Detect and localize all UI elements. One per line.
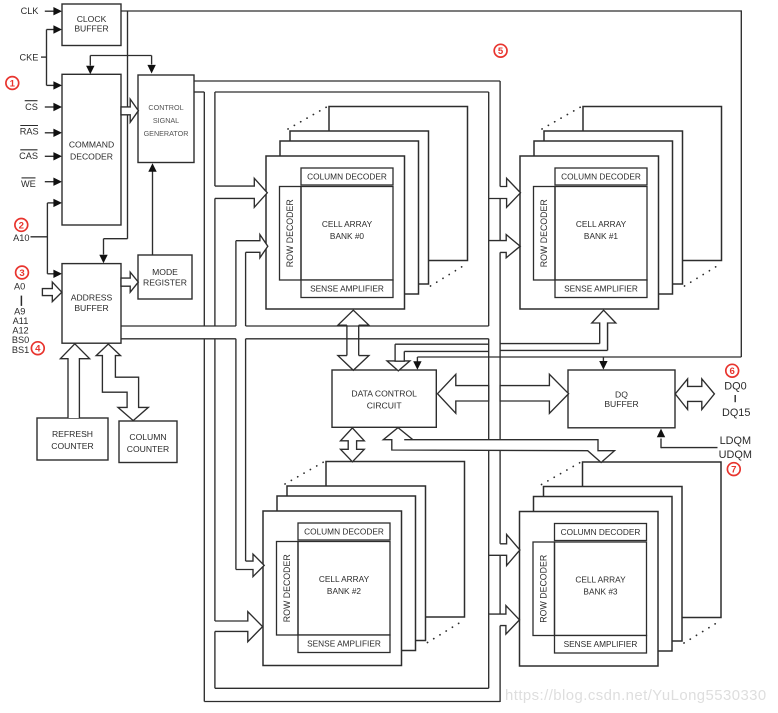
cell array bank 3 stack <box>583 462 722 618</box>
svg-text:LDQM: LDQM <box>720 435 751 447</box>
bank3 dotted corner links <box>542 460 585 485</box>
wire LDQM UDQM <box>661 447 718 449</box>
svg-text:A0: A0 <box>14 282 25 292</box>
bottom bus upper line <box>215 687 489 689</box>
arrow control into bank0 row decoder <box>215 178 267 207</box>
DQ buffer <box>568 370 675 428</box>
bank2 row decoder <box>277 542 299 636</box>
arrow RAS into command decoder <box>53 129 62 137</box>
svg-text:6: 6 <box>730 366 735 377</box>
arrow DCC to bank2 <box>341 428 365 462</box>
arrow A0-A12 into address buffer <box>42 282 61 302</box>
svg-text:SENSE AMPLIFIER: SENSE AMPLIFIER <box>564 284 638 294</box>
arrow LDQM into DQ buffer bottom <box>657 429 665 438</box>
cell array bank 0 stack <box>329 107 468 261</box>
svg-text:CELL ARRAY: CELL ARRAY <box>575 575 626 585</box>
bank0 column decoder <box>301 168 393 185</box>
arrow refresh counter to address buffer <box>60 344 89 418</box>
control bus right vertical inner <box>488 92 490 326</box>
bank1 data channel bend verticals <box>599 323 601 344</box>
arrow address buffer to column counter <box>96 344 148 421</box>
arrow bank1 channel into DCC top <box>387 361 410 371</box>
svg-text:4: 4 <box>35 344 41 355</box>
arrow bank1 sense amp head <box>592 310 616 350</box>
arrow DCC to bank3 <box>383 428 614 463</box>
svg-text:A10: A10 <box>13 233 29 243</box>
wire CS input stub <box>45 106 55 108</box>
svg-text:CLK: CLK <box>21 6 40 16</box>
arrow CLK into clock buffer <box>53 7 62 15</box>
svg-text:REFRESH: REFRESH <box>52 429 93 439</box>
data control circuit <box>332 370 436 427</box>
arrow clock into control signal generator top <box>147 65 155 74</box>
wire CLK input stub <box>45 10 55 12</box>
svg-text:COMMAND: COMMAND <box>69 140 114 150</box>
svg-text:BUFFER: BUFFER <box>74 24 108 34</box>
arrow CAS into command decoder <box>53 152 62 160</box>
arrow clock into DQ buffer top <box>599 361 607 370</box>
marker 1 <box>6 77 19 90</box>
arrow WE into command decoder <box>53 178 62 186</box>
wire A10 label stub <box>31 236 48 238</box>
svg-text:ROW DECODER: ROW DECODER <box>285 199 295 267</box>
bank2 dotted corner links <box>285 460 328 485</box>
arrow clock into DCC top <box>413 361 421 370</box>
arrow address into bank2 row decoder <box>236 554 264 577</box>
arrow DQ buffer to DQ pins <box>675 379 714 410</box>
marker 7 <box>727 463 740 476</box>
svg-text:7: 7 <box>731 465 736 476</box>
arrow control into bank2 row decoder <box>215 612 263 642</box>
svg-text:SENSE AMPLIFIER: SENSE AMPLIFIER <box>310 284 384 294</box>
wire clock elbow to address buffer <box>104 238 128 240</box>
address branch left inner <box>245 252 247 326</box>
bank1 column decoder <box>555 168 647 185</box>
wire CKE label stub <box>41 56 47 58</box>
svg-text:COUNTER: COUNTER <box>51 441 94 451</box>
refresh counter <box>37 418 108 460</box>
bank1 cell array <box>555 187 647 281</box>
svg-text:2: 2 <box>19 220 24 231</box>
svg-text:BS0: BS0 <box>12 335 29 345</box>
control bus upper line <box>194 80 500 82</box>
svg-text:BANK #0: BANK #0 <box>330 231 365 241</box>
svg-text:BUFFER: BUFFER <box>74 303 108 313</box>
svg-text:GENERATOR: GENERATOR <box>144 129 189 138</box>
svg-text:DQ: DQ <box>615 389 628 399</box>
bank0 cell array <box>301 187 393 281</box>
svg-text:UDQM: UDQM <box>719 449 752 461</box>
bank2 column decoder <box>298 523 390 540</box>
bank1 data channel lower <box>500 349 607 351</box>
wire clock internal vertical <box>127 11 129 239</box>
marker 5 <box>494 44 507 57</box>
arrow address into bank0 row decoder <box>236 235 268 258</box>
clock buffer <box>62 4 121 46</box>
svg-text:BANK #2: BANK #2 <box>327 586 362 596</box>
arrow CKE into clock buffer <box>53 25 62 33</box>
address buffer <box>62 264 121 344</box>
arrow DQ buffer to data control circuit <box>438 374 489 413</box>
svg-text:REGISTER: REGISTER <box>143 277 187 287</box>
svg-text:COLUMN DECODER: COLUMN DECODER <box>304 527 384 537</box>
svg-text:MODE: MODE <box>152 267 178 277</box>
wire clock return rail to DCC <box>417 356 741 358</box>
arrow bus into bank3 row decoder lower <box>489 606 520 635</box>
bank1 row decoder <box>534 187 556 281</box>
svg-text:CS: CS <box>25 102 38 112</box>
svg-text:ROW DECODER: ROW DECODER <box>282 554 292 622</box>
svg-text:CKE: CKE <box>20 53 39 63</box>
arrow clock into address buffer top <box>99 255 107 264</box>
bank0 dotted corner links <box>288 105 331 130</box>
wire CKE vertical <box>46 30 48 86</box>
arrow command decoder to control signal generator <box>121 99 138 122</box>
arrow CKE into command decoder <box>53 81 62 89</box>
svg-text:RAS: RAS <box>20 127 39 137</box>
bank1 data channel upper left <box>395 343 489 345</box>
svg-text:CONTROL: CONTROL <box>148 103 183 112</box>
wire clock drop to command decoder <box>89 56 91 66</box>
control bus right vertical outer <box>499 81 501 187</box>
svg-text:1: 1 <box>10 79 16 90</box>
bank0 sense amplifier <box>301 280 393 298</box>
bank3 column decoder <box>555 524 647 541</box>
svg-text:ROW DECODER: ROW DECODER <box>538 555 548 623</box>
svg-text:BS1: BS1 <box>12 345 29 355</box>
cell array bank 1 stack <box>583 107 722 261</box>
column counter <box>119 421 177 463</box>
svg-text:SENSE AMPLIFIER: SENSE AMPLIFIER <box>307 639 381 649</box>
arrow A10 into address buffer <box>53 270 62 278</box>
svg-text:CAS: CAS <box>19 151 38 161</box>
bank1 data channel lower left <box>404 350 488 352</box>
label DQ dash <box>734 395 736 402</box>
command decoder <box>62 74 121 225</box>
wire clock drop to DQ buffer <box>602 357 604 362</box>
svg-text:COLUMN DECODER: COLUMN DECODER <box>307 172 387 182</box>
label A0-A9 dash <box>20 296 22 306</box>
svg-text:CELL ARRAY: CELL ARRAY <box>576 219 627 229</box>
svg-text:SENSE AMPLIFIER: SENSE AMPLIFIER <box>564 639 638 649</box>
bank1 sense amplifier <box>555 280 647 298</box>
svg-text:COLUMN: COLUMN <box>129 432 166 442</box>
arrow A10 into command decoder <box>53 199 62 207</box>
svg-text:CELL ARRAY: CELL ARRAY <box>319 574 370 584</box>
control bus lower line <box>194 91 204 93</box>
svg-text:5: 5 <box>498 46 504 57</box>
mode register <box>138 255 192 299</box>
wire RAS input stub <box>45 132 55 134</box>
address branch left outer <box>235 241 237 326</box>
wire CAS input stub <box>45 155 55 157</box>
marker 2 <box>15 219 28 232</box>
svg-text:BANK #3: BANK #3 <box>583 587 618 597</box>
svg-text:ADDRESS: ADDRESS <box>71 293 113 303</box>
arrow address buffer to mode register <box>121 272 138 292</box>
svg-text:CLOCK: CLOCK <box>77 14 107 24</box>
bank2 cell array <box>298 542 390 636</box>
arrow CS into command decoder <box>53 103 62 111</box>
svg-text:COUNTER: COUNTER <box>127 444 170 454</box>
wire A10 to address buffer <box>47 273 54 275</box>
arrow bank0 sense amp to data control circuit <box>338 310 369 325</box>
wire WE input stub <box>45 181 55 183</box>
arrow into control signal generator bottom <box>148 163 156 172</box>
svg-text:SIGNAL: SIGNAL <box>153 116 179 125</box>
bank0 row decoder <box>280 187 302 281</box>
bank3 row decoder <box>533 542 555 636</box>
arrow clock into command decoder top <box>86 66 94 75</box>
wire clock drop to control signal generator <box>151 56 153 65</box>
wire CKE to command decoder <box>47 84 55 86</box>
marker 3 <box>16 266 29 279</box>
control bus left branch inner <box>214 92 216 186</box>
bank2 sense amplifier <box>298 635 390 653</box>
wire A10 vertical <box>46 203 48 274</box>
bank3 sense amplifier <box>555 636 647 654</box>
arrow bus into bank3 row decoder <box>489 535 520 566</box>
arrow control into bank1 row decoder <box>489 178 521 207</box>
svg-text:DQ0: DQ0 <box>724 381 746 393</box>
svg-text:DQ15: DQ15 <box>722 407 750 419</box>
svg-text:COLUMN DECODER: COLUMN DECODER <box>561 527 641 537</box>
svg-text:CIRCUIT: CIRCUIT <box>367 401 403 411</box>
svg-text:WE: WE <box>21 179 36 189</box>
wire clock right vertical <box>740 10 742 357</box>
arrow address into bank1 row decoder <box>489 235 521 258</box>
wire clock buffer output top rail <box>121 10 741 12</box>
svg-text:DECODER: DECODER <box>70 152 113 162</box>
wire clock drop to DCC <box>416 357 418 362</box>
svg-text:DATA CONTROL: DATA CONTROL <box>351 389 417 399</box>
svg-text:https://blog.csdn.net/YuLong55: https://blog.csdn.net/YuLong5530330 <box>505 688 767 704</box>
bank1 data channel upper <box>500 343 600 345</box>
arrow DCC to DQ buffer <box>500 374 568 413</box>
svg-text:A12: A12 <box>12 325 28 335</box>
bank3 cell array <box>555 542 647 636</box>
address bus lower line <box>121 338 236 340</box>
wire mode register to control signal generator <box>152 172 154 256</box>
control bus left branch outer <box>203 92 205 326</box>
wire clock tee horizontal <box>90 55 151 57</box>
wire CKE to clock buffer <box>47 29 55 31</box>
svg-text:ROW DECODER: ROW DECODER <box>539 199 549 267</box>
control bus left branch outer lower <box>203 339 205 702</box>
svg-text:BANK #1: BANK #1 <box>584 231 619 241</box>
wire clock drop to address buffer <box>103 239 105 255</box>
address bus upper line <box>121 325 236 327</box>
svg-text:BUFFER: BUFFER <box>604 399 638 409</box>
bottom bus lower line <box>204 701 500 703</box>
cell array bank 2 stack <box>326 462 465 618</box>
bank1 dotted corner links <box>542 105 585 130</box>
svg-text:COLUMN DECODER: COLUMN DECODER <box>561 172 641 182</box>
wire A10 to command decoder <box>47 202 54 204</box>
control signal generator <box>138 75 194 163</box>
svg-text:CELL ARRAY: CELL ARRAY <box>322 219 373 229</box>
marker 6 <box>726 364 739 377</box>
marker 4 <box>31 342 44 355</box>
svg-text:3: 3 <box>19 268 24 279</box>
